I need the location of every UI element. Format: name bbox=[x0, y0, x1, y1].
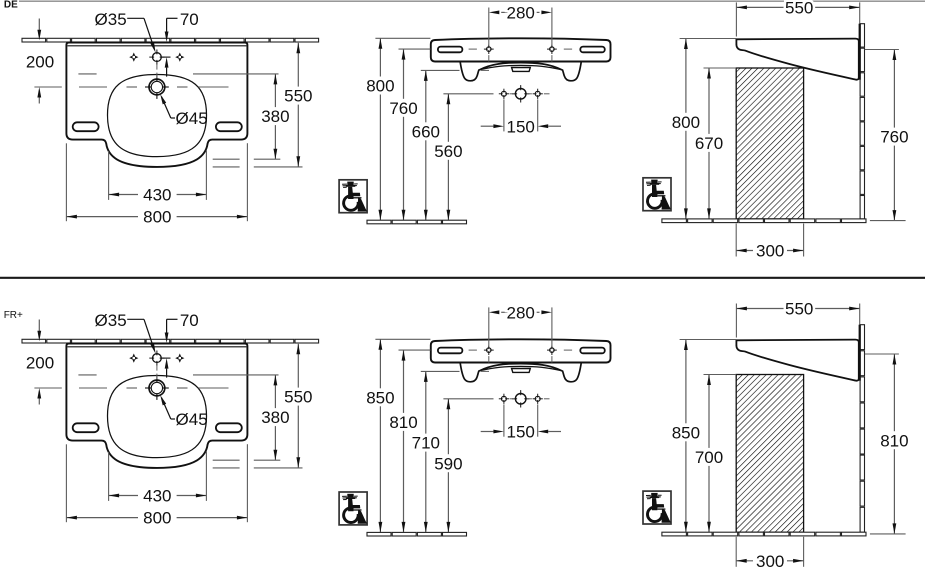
basin outline (plan) bbox=[66, 43, 247, 167]
floor line (side) bbox=[662, 219, 687, 223]
wheelchair accessibility icon bbox=[339, 492, 367, 525]
drain hole bbox=[149, 79, 165, 95]
row separator line bbox=[0, 277, 925, 279]
extension lines 280 bbox=[488, 8, 490, 45]
svg-text:550: 550 bbox=[785, 300, 813, 319]
dimension 430 plan bbox=[109, 186, 207, 205]
dashes between drain circles bbox=[510, 398, 515, 400]
dimension 430 plan bbox=[109, 487, 207, 506]
wheelchair accessibility icon bbox=[643, 178, 671, 211]
extension line 380 top bbox=[193, 73, 279, 75]
svg-text:150: 150 bbox=[507, 423, 535, 442]
alternate tap hole marks bbox=[135, 357, 138, 360]
dimension 670 side bbox=[695, 68, 723, 219]
svg-text:760: 760 bbox=[880, 128, 908, 147]
faucet hole bbox=[153, 53, 162, 62]
extension line 380 top bbox=[193, 374, 279, 376]
dimension 300 bbox=[736, 552, 803, 571]
floor line (front) bbox=[367, 220, 391, 224]
dimension 800 side bbox=[672, 39, 700, 219]
right fixing slot bbox=[216, 122, 242, 131]
dashes between drain circles bbox=[510, 93, 515, 95]
extension lines 150 bbox=[503, 404, 505, 436]
basin profile (side) bbox=[736, 39, 858, 80]
dimension 150 bbox=[481, 423, 561, 442]
horizontal centerline through drain bbox=[34, 86, 61, 88]
extension line 800 side bbox=[680, 38, 737, 40]
dimension 560 front bbox=[434, 94, 462, 220]
drain fitting circles bbox=[515, 89, 526, 100]
dimension 380 plan bbox=[261, 74, 289, 159]
drain trap cover bbox=[512, 369, 531, 373]
svg-text:70: 70 bbox=[180, 10, 199, 29]
dimension 850 side bbox=[672, 340, 700, 533]
dimension 710 front bbox=[412, 371, 440, 532]
basin profile (side) bbox=[736, 340, 858, 381]
extension line 760 front bbox=[399, 48, 431, 50]
svg-text:200: 200 bbox=[26, 354, 54, 373]
svg-text:700: 700 bbox=[695, 448, 723, 467]
dimension 810 front bbox=[389, 350, 417, 532]
extension lines 150 bbox=[503, 99, 505, 131]
svg-text:Ø35: Ø35 bbox=[95, 10, 127, 29]
svg-text:200: 200 bbox=[26, 53, 54, 72]
drain fitting circles bbox=[515, 394, 526, 405]
svg-text:300: 300 bbox=[756, 552, 784, 571]
ledge line left of bowl bbox=[78, 374, 96, 376]
svg-text:70: 70 bbox=[180, 311, 199, 330]
apron outline under basin bbox=[460, 363, 581, 382]
alternate tap hole marks bbox=[135, 56, 138, 59]
apron outline under basin bbox=[460, 62, 581, 81]
dimension 700 side bbox=[695, 375, 723, 533]
dimension 550 side bbox=[736, 0, 859, 18]
extension lines 800 plan bbox=[65, 444, 67, 522]
dimension 590 front bbox=[434, 399, 462, 533]
extension lines 800 plan bbox=[65, 143, 67, 221]
inner bowl outline bbox=[108, 75, 207, 157]
basin front outline bbox=[431, 339, 611, 362]
floor line (front) bbox=[367, 532, 391, 536]
wheelchair accessibility icon bbox=[643, 491, 671, 524]
svg-text:380: 380 bbox=[261, 107, 289, 126]
svg-text:760: 760 bbox=[389, 99, 417, 118]
reference lines right of bowl bbox=[213, 158, 240, 160]
center dashes beside holes bbox=[469, 48, 477, 50]
basin outline (plan) bbox=[66, 344, 247, 468]
floor line (side) bbox=[662, 532, 687, 536]
left fixing slot bbox=[73, 423, 99, 432]
extension lines 430 bbox=[108, 151, 110, 200]
dimension 760 side bbox=[880, 50, 908, 221]
extension line 760 side bbox=[865, 49, 899, 51]
dimension 70 lower arrow and tick bbox=[162, 357, 171, 359]
extension line 760 side bbox=[865, 353, 899, 355]
extension line 660 front bbox=[421, 69, 460, 71]
dimension 70 lower arrow and tick bbox=[162, 56, 171, 58]
extension line 670 side bbox=[704, 374, 737, 376]
dimension 300 bbox=[736, 242, 803, 261]
svg-text:590: 590 bbox=[434, 454, 462, 473]
extension line 800 front bbox=[375, 37, 430, 39]
dimension 850 front bbox=[366, 339, 394, 532]
svg-text:430: 430 bbox=[143, 186, 171, 205]
svg-text:550: 550 bbox=[284, 87, 312, 106]
dimension 200 bbox=[38, 19, 40, 31]
vertical centerline below faucet bbox=[156, 65, 158, 70]
fixing holes bbox=[487, 348, 492, 353]
reference lines right of bowl bbox=[213, 459, 240, 461]
dimension 800 plan bbox=[66, 208, 247, 227]
extension line 550 side left bbox=[735, 2, 737, 36]
wall line (plan, hatched tiles) bbox=[22, 339, 46, 343]
svg-text:280: 280 bbox=[507, 303, 535, 322]
basin front outline bbox=[431, 38, 611, 61]
extension line 800 side bbox=[680, 339, 737, 341]
dimension 550 plan bbox=[284, 43, 312, 167]
drain hole bbox=[149, 380, 165, 396]
dimension 380 plan bbox=[261, 375, 289, 460]
svg-text:280: 280 bbox=[507, 4, 535, 23]
extension line 550 side right bbox=[859, 304, 861, 325]
fixing holes bbox=[487, 47, 492, 52]
wall line (side, tiles) bbox=[860, 24, 864, 47]
extension lines 300 bbox=[735, 537, 737, 567]
wall line (side, tiles) bbox=[860, 325, 864, 350]
svg-text:800: 800 bbox=[143, 208, 171, 227]
drain trap cover bbox=[512, 68, 531, 72]
dimension 150 bbox=[481, 117, 561, 136]
svg-text:300: 300 bbox=[756, 242, 784, 261]
extension lines 300 bbox=[735, 224, 737, 257]
bowl underside arc bbox=[480, 65, 562, 69]
right fixing slot bbox=[216, 423, 242, 432]
basin rim inner line bbox=[67, 346, 246, 348]
left fixing slot bbox=[73, 122, 99, 131]
faucet hole bbox=[153, 354, 162, 363]
extension line 800 front bbox=[375, 338, 430, 340]
mounting bracket at wall bbox=[859, 325, 861, 381]
svg-text:810: 810 bbox=[880, 431, 908, 450]
svg-text:Ø45: Ø45 bbox=[176, 410, 208, 429]
svg-text:550: 550 bbox=[284, 388, 312, 407]
mounting bracket at wall bbox=[859, 24, 861, 80]
vertical centerline below faucet bbox=[156, 366, 158, 371]
extension lines 430 bbox=[108, 452, 110, 501]
svg-text:710: 710 bbox=[412, 434, 440, 453]
basin rim inner line bbox=[67, 45, 246, 47]
ledge line left of bowl bbox=[78, 73, 96, 75]
floor reference line right bbox=[870, 220, 906, 222]
svg-text:810: 810 bbox=[389, 413, 417, 432]
dimension 760 front bbox=[389, 49, 417, 220]
dimension 280 bbox=[489, 4, 552, 23]
extension line 760 front bbox=[399, 349, 431, 351]
extension line 560 front bbox=[443, 93, 493, 95]
svg-text:150: 150 bbox=[507, 117, 535, 136]
top border line bbox=[19, 0, 925, 2]
dimension 280 bbox=[489, 303, 552, 322]
svg-text:800: 800 bbox=[366, 77, 394, 96]
right slot front bbox=[580, 47, 605, 53]
dimension 800 front bbox=[366, 38, 394, 220]
floor reference line right bbox=[870, 533, 906, 535]
svg-text:800: 800 bbox=[143, 509, 171, 528]
svg-text:850: 850 bbox=[672, 423, 700, 442]
wheelchair accessibility icon bbox=[339, 180, 367, 213]
svg-text:660: 660 bbox=[412, 122, 440, 141]
dimension 550 plan bbox=[284, 344, 312, 468]
svg-text:Ø35: Ø35 bbox=[95, 311, 127, 330]
svg-text:670: 670 bbox=[695, 134, 723, 153]
svg-text:380: 380 bbox=[261, 408, 289, 427]
extension line 550 side left bbox=[735, 304, 737, 338]
extension line 660 front bbox=[421, 370, 460, 372]
bowl underside arc bbox=[480, 366, 562, 370]
left slot front bbox=[438, 47, 463, 53]
dimension 810 side bbox=[880, 354, 908, 534]
svg-text:DE: DE bbox=[4, 0, 18, 11]
dimension 660 front bbox=[412, 70, 440, 220]
right slot front bbox=[580, 348, 605, 354]
left slot front bbox=[438, 348, 463, 354]
extension line 550 side right bbox=[859, 2, 861, 23]
extension line 670 side bbox=[704, 67, 737, 69]
inner bowl outline bbox=[108, 376, 207, 458]
dimension 550 side bbox=[736, 300, 859, 319]
svg-text:560: 560 bbox=[434, 142, 462, 161]
svg-text:Ø45: Ø45 bbox=[176, 109, 208, 128]
center dashes beside holes bbox=[469, 349, 477, 351]
dimension 800 plan bbox=[66, 509, 247, 528]
extension line 560 front bbox=[443, 398, 493, 400]
svg-text:850: 850 bbox=[366, 388, 394, 407]
svg-text:430: 430 bbox=[143, 487, 171, 506]
svg-text:FR+: FR+ bbox=[4, 310, 23, 321]
horizontal centerline through drain bbox=[34, 387, 61, 389]
svg-text:550: 550 bbox=[785, 0, 813, 18]
wall line (plan, hatched tiles) bbox=[22, 38, 46, 42]
svg-text:800: 800 bbox=[672, 113, 700, 132]
dimension 200 bbox=[38, 320, 40, 332]
extension lines 280 bbox=[488, 307, 490, 345]
